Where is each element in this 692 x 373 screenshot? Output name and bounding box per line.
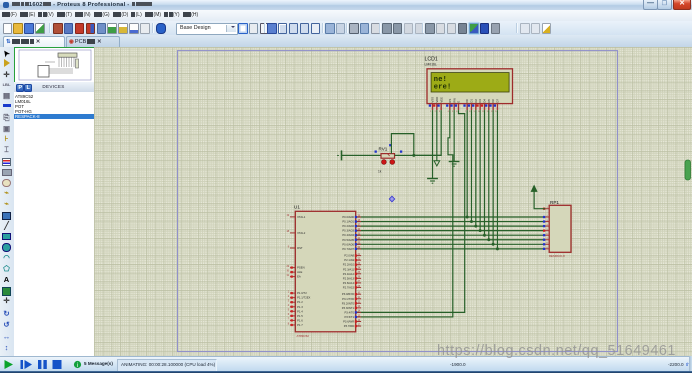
wire power terminal to RV1 — [341, 154, 381, 156]
svg-text:P3.7/RD: P3.7/RD — [343, 324, 353, 328]
svg-text:P0.5/AD5: P0.5/AD5 — [342, 238, 354, 242]
svg-text:RST: RST — [297, 246, 303, 250]
svg-text:PSEN: PSEN — [297, 266, 305, 270]
resistor pack RP1 (RESPACK-8) — [542, 200, 570, 258]
wire E to U1 P3.4 — [356, 110, 464, 312]
svg-text:P3.1/TXD: P3.1/TXD — [342, 297, 354, 301]
svg-text:P1.0/T2: P1.0/T2 — [297, 291, 307, 295]
potentiometer RV1 1k — [374, 144, 402, 173]
svg-text:XTAL2: XTAL2 — [297, 231, 306, 235]
svg-text:P0.7/AD7: P0.7/AD7 — [342, 247, 354, 251]
svg-text:XTAL1: XTAL1 — [297, 215, 306, 219]
ground (VSS) — [427, 179, 438, 184]
MCU U1 (AT89C52) — [286, 205, 361, 339]
power terminal (left of RV1) — [337, 150, 342, 160]
left mode toolbar — [0, 47, 15, 356]
svg-text:P3.0/RXD: P3.0/RXD — [341, 292, 353, 296]
power terminal (RP1, up arrow) — [531, 185, 537, 191]
svg-text:P1.7: P1.7 — [297, 323, 303, 327]
svg-text:P1.6: P1.6 — [297, 318, 303, 322]
svg-text:LM016L: LM016L — [424, 62, 436, 66]
sheet border — [177, 51, 617, 352]
svg-text:P2.0/A8: P2.0/A8 — [344, 254, 354, 258]
svg-text:VEE: VEE — [439, 97, 443, 103]
svg-text:ne!: ne! — [433, 76, 446, 84]
svg-text:RESPACK-8: RESPACK-8 — [549, 254, 565, 258]
svg-text:P3.4/T0: P3.4/T0 — [344, 310, 354, 314]
wire RV1 wiper loop — [391, 134, 413, 156]
svg-text:P1.4: P1.4 — [297, 309, 303, 313]
wire LCD D0 down to P0.0 net — [466, 110, 468, 217]
wire VEE to RV1 wiper net — [413, 110, 440, 155]
svg-text:EA: EA — [297, 275, 301, 279]
svg-text:P3.6/WR: P3.6/WR — [343, 320, 354, 324]
svg-text:P1.3: P1.3 — [297, 305, 303, 309]
wire RW to ground — [453, 110, 455, 161]
svg-text:P2.3/A11: P2.3/A11 — [342, 267, 354, 271]
document tab bar — [0, 35, 692, 48]
svg-text:U1: U1 — [294, 205, 300, 210]
svg-text:P0.4/AD4: P0.4/AD4 — [342, 233, 354, 237]
wire P0.1 from U1 to RP1 — [356, 221, 545, 223]
LCD LCD1 (LM016L) — [424, 57, 512, 113]
devices list — [14, 92, 95, 356]
svg-text:E: E — [456, 101, 460, 103]
wire P0.4 from U1 to RP1 — [356, 234, 545, 236]
wire P0.2 from U1 to RP1 — [356, 225, 545, 227]
origin marker — [389, 196, 394, 202]
svg-text:P2.5/A13: P2.5/A13 — [342, 276, 354, 280]
svg-text:P0.6/AD6: P0.6/AD6 — [342, 242, 354, 246]
svg-text:P2.1/A9: P2.1/A9 — [344, 258, 354, 262]
svg-text:AT89C52: AT89C52 — [296, 334, 309, 338]
wire P0.0 from U1 to RP1 — [356, 216, 545, 218]
svg-text:P0.3/AD3: P0.3/AD3 — [342, 229, 354, 233]
overview mini map — [14, 47, 95, 84]
junction D3/P0.3 — [478, 229, 481, 232]
junction D4/P0.4 — [482, 234, 485, 237]
svg-text:ALE: ALE — [297, 270, 302, 274]
wire VDD to power terminal — [435, 110, 437, 161]
wire RV1 output to VEE column — [394, 154, 441, 156]
junction D2/P0.2 — [474, 225, 477, 228]
wire RS to U1 P3.5 — [356, 110, 452, 317]
power terminal (VDD, down arrow) — [434, 161, 440, 166]
ground (RW) — [448, 162, 459, 167]
watermark text — [437, 343, 676, 359]
wire P0.5 from U1 to RP1 — [356, 239, 545, 241]
svg-text:RV1: RV1 — [378, 147, 387, 152]
svg-text:P1.2: P1.2 — [297, 300, 303, 304]
svg-text:P2.4/A12: P2.4/A12 — [342, 272, 354, 276]
main toolbar — [0, 21, 692, 37]
svg-text:D7: D7 — [495, 99, 499, 103]
wire LCD D3 down to P0.3 net — [479, 110, 481, 231]
wire LCD D2 down to P0.2 net — [474, 110, 476, 226]
wire VSS to ground — [431, 110, 433, 178]
svg-text:RP1: RP1 — [550, 200, 559, 205]
svg-text:P1.5: P1.5 — [297, 314, 303, 318]
svg-text:P0.1/AD1: P0.1/AD1 — [342, 220, 354, 224]
svg-text:P3.2/INT0: P3.2/INT0 — [341, 301, 354, 305]
svg-text:P2.6/A14: P2.6/A14 — [342, 281, 354, 285]
junction D0/P0.0 — [465, 216, 468, 219]
svg-text:1k: 1k — [378, 169, 382, 173]
wire P0.6 from U1 to RP1 — [356, 243, 545, 245]
wire P0.3 from U1 to RP1 — [356, 230, 545, 232]
wire RP1 pin1 to power — [534, 191, 545, 208]
svg-text:P3.3/INT1: P3.3/INT1 — [341, 306, 354, 310]
svg-text:ere!: ere! — [433, 84, 451, 92]
svg-text:P0.0/AD0: P0.0/AD0 — [342, 215, 354, 219]
wire LCD D5 down to P0.5 net — [487, 110, 489, 240]
junction RV1 wiper/output — [412, 154, 415, 157]
wire P0.7 from U1 to RP1 — [356, 248, 545, 250]
schematic canvas — [94, 47, 692, 356]
devices header — [14, 82, 94, 93]
wire LCD D1 down to P0.1 net — [470, 110, 472, 221]
bottom status / animation bar — [0, 356, 692, 372]
junction D6/P0.6 — [491, 243, 494, 246]
menu bar — [0, 10, 692, 21]
wire LCD D4 down to P0.4 net — [483, 110, 485, 235]
svg-text:P2.7/A15: P2.7/A15 — [342, 285, 354, 289]
junction D5/P0.5 — [487, 238, 490, 241]
wire LCD D7 down to P0.7 net — [496, 110, 498, 249]
svg-text:P3.5/T1: P3.5/T1 — [344, 315, 354, 319]
window title bar — [0, 0, 692, 11]
junction D7/P0.7 — [495, 247, 498, 250]
scrollbar nub right edge — [685, 160, 691, 180]
svg-text:P0.2/AD2: P0.2/AD2 — [342, 224, 354, 228]
svg-text:P2.2/A10: P2.2/A10 — [342, 263, 354, 267]
svg-text:i: i — [77, 363, 78, 369]
svg-text:P1.1/T2EX: P1.1/T2EX — [297, 296, 310, 300]
wire LCD D6 down to P0.6 net — [492, 110, 494, 244]
junction D1/P0.1 — [469, 220, 472, 223]
